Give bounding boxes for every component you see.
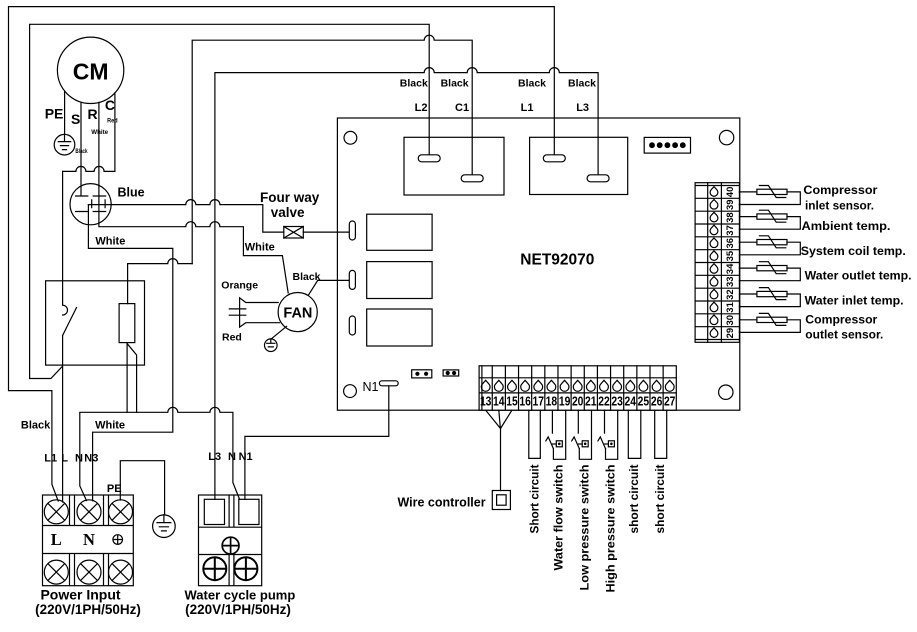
wire L1: power L terminal up left side, across top, down to board pad L1 bbox=[9, 7, 555, 501]
power input terminal L bottom bbox=[44, 560, 68, 584]
svg-text:32: 32 bbox=[725, 289, 736, 300]
terminal strip 13-27 bbox=[479, 366, 676, 410]
svg-text:L2: L2 bbox=[415, 102, 428, 114]
svg-text:Short circuit: Short circuit bbox=[527, 465, 541, 534]
svg-text:valve: valve bbox=[271, 205, 305, 220]
svg-text:N: N bbox=[228, 451, 236, 463]
relay slot 3 bbox=[349, 316, 355, 335]
water cycle pump terminal block bbox=[199, 495, 262, 586]
svg-text:Black: Black bbox=[518, 78, 546, 90]
svg-text:White: White bbox=[245, 242, 275, 254]
contactor pad box 1 (L2/C1) bbox=[404, 137, 504, 195]
svg-text:Low pressure switch: Low pressure switch bbox=[577, 465, 591, 591]
svg-text:Ambient temp.: Ambient temp. bbox=[802, 219, 891, 233]
svg-text:Red: Red bbox=[107, 117, 118, 124]
svg-text:inlet sensor.: inlet sensor. bbox=[805, 199, 874, 213]
svg-text:PE: PE bbox=[107, 483, 122, 495]
pad C1 bbox=[461, 175, 483, 182]
wire PE: power PE terminal up and right to earth electrode bbox=[120, 461, 164, 515]
svg-text:23: 23 bbox=[611, 394, 623, 409]
svg-text:38: 38 bbox=[725, 212, 736, 223]
svg-text:System coil temp.: System coil temp. bbox=[801, 244, 906, 258]
pump screw terminal right bbox=[234, 557, 257, 580]
wire N3: capacitor bottom down, right, down, left, down to power terminal N bbox=[88, 205, 172, 501]
board corner hole top-left bbox=[344, 131, 357, 144]
svg-text:Water outlet temp.: Water outlet temp. bbox=[805, 268, 912, 282]
wire: CM terminal S down to capacitor bbox=[80, 102, 82, 196]
svg-text:Red: Red bbox=[222, 332, 242, 344]
fan capacitor plates bbox=[229, 309, 246, 315]
wire: node v1 down-left link to neutral (hop over N3 vertical) bbox=[128, 259, 193, 304]
wire + thermistor RT3 system coil sensor bbox=[739, 236, 800, 255]
svg-text:Water flow switch: Water flow switch bbox=[552, 465, 566, 571]
power input terminal N bottom bbox=[77, 560, 101, 584]
svg-text:Power Input: Power Input bbox=[40, 587, 120, 603]
svg-text:Water inlet temp.: Water inlet temp. bbox=[805, 293, 904, 307]
ground (fan) bbox=[265, 339, 278, 352]
svg-text:19: 19 bbox=[559, 394, 571, 409]
wire: CM terminal PE down to ground bbox=[64, 91, 66, 134]
contactor switch blade bbox=[63, 308, 77, 336]
short circuit link 24-25 bbox=[628, 410, 641, 458]
svg-text:Black: Black bbox=[21, 419, 51, 431]
board corner hole top-right bbox=[719, 130, 733, 144]
relay K4 bbox=[367, 309, 432, 346]
svg-text:outlet sensor.: outlet sensor. bbox=[805, 328, 883, 342]
wire: CM terminal R down through capacitor, right to fan (White), hops v1,v2 bbox=[99, 102, 288, 293]
svg-text:C: C bbox=[105, 97, 115, 113]
fan capacitor plug (Orange/Red) bbox=[240, 298, 280, 327]
svg-text:L1: L1 bbox=[521, 102, 534, 114]
wire + thermistor RT2 ambient temp sensor bbox=[739, 210, 800, 229]
wire N1: board pad N1 down, left, down to pump terminal N1 bbox=[245, 386, 389, 500]
svg-text:N1: N1 bbox=[239, 451, 253, 463]
svg-text:L: L bbox=[51, 530, 62, 549]
pad N1 bbox=[379, 381, 398, 386]
pad L2 bbox=[418, 155, 440, 162]
wire + thermistor RT6 compressor outlet sensor bbox=[739, 313, 800, 332]
svg-text:L: L bbox=[61, 452, 68, 464]
wire: fan to earth bbox=[271, 326, 286, 339]
svg-text:27: 27 bbox=[664, 394, 676, 409]
wire L2: switch junction via diagonal, up second-left vertical, across, down to board pad L2 bbox=[30, 24, 430, 378]
2-pin connector J1 bbox=[412, 370, 432, 378]
board corner hole bottom-right bbox=[719, 385, 733, 399]
short circuit link 16-17 bbox=[529, 410, 541, 458]
ground (power input area) bbox=[153, 515, 176, 538]
svg-text:N1: N1 bbox=[363, 380, 379, 394]
wire L3: pump L3 terminal up long vertical, across top (hops over L2,C1,L1 wires), down to board pad L3 bbox=[215, 68, 598, 500]
svg-text:N: N bbox=[75, 452, 83, 464]
svg-text:Water cycle pump: Water cycle pump bbox=[185, 588, 296, 603]
compressor motor CM bbox=[57, 37, 123, 103]
svg-text:35: 35 bbox=[725, 250, 736, 261]
power input terminal L top bbox=[44, 500, 68, 524]
svg-text:High pressure switch: High pressure switch bbox=[604, 465, 618, 593]
contactor box K1 bbox=[46, 281, 145, 365]
water flow switch contact 18-19 style bbox=[546, 410, 566, 459]
svg-text:20: 20 bbox=[572, 394, 584, 409]
wire: CM terminal C left-then-down to contactor switch (hops over S and R wires) bbox=[63, 93, 115, 171]
wire: capacitor centre to four-way valve (hops v1,v2) bbox=[88, 200, 283, 233]
wire controller bbox=[492, 491, 510, 510]
relay K2 bbox=[367, 214, 432, 250]
svg-text:Compressor: Compressor bbox=[803, 183, 877, 197]
wire + thermistor RT4 water outlet sensor bbox=[739, 262, 800, 281]
svg-text:L1: L1 bbox=[44, 452, 57, 464]
wire + thermistor RT5 water inlet sensor bbox=[739, 288, 800, 307]
svg-text:CM: CM bbox=[73, 59, 109, 85]
relay K3 bbox=[367, 262, 432, 299]
wire: switch bottom down to power terminal L bbox=[62, 336, 64, 503]
svg-text:C1: C1 bbox=[455, 102, 469, 114]
svg-text:short circuit: short circuit bbox=[653, 465, 667, 534]
svg-text:29: 29 bbox=[725, 328, 736, 339]
svg-text:Black: Black bbox=[441, 78, 469, 90]
svg-text:(220V/1PH/50Hz): (220V/1PH/50Hz) bbox=[35, 602, 141, 617]
svg-text:31: 31 bbox=[725, 301, 736, 312]
high pressure switch contact 18-19 style bbox=[598, 410, 618, 459]
svg-text:21: 21 bbox=[585, 394, 597, 409]
svg-text:37: 37 bbox=[725, 225, 736, 236]
svg-text:Black: Black bbox=[75, 148, 87, 155]
svg-text:L3: L3 bbox=[208, 451, 221, 463]
sensor strip drop contacts bbox=[710, 187, 718, 338]
svg-text:R: R bbox=[88, 106, 98, 122]
wire: four-way valve to board slot 1 bbox=[303, 231, 349, 233]
pump screw terminal left bbox=[203, 557, 226, 580]
wire + thermistor RT1 compressor inlet sensor bbox=[739, 186, 800, 205]
svg-text:White: White bbox=[91, 129, 108, 136]
svg-text:15: 15 bbox=[506, 394, 518, 409]
power input terminal PE bottom bbox=[109, 560, 133, 584]
svg-text:40: 40 bbox=[725, 187, 736, 198]
run capacitor (Blue) bbox=[70, 184, 111, 225]
svg-text:Four way: Four way bbox=[260, 190, 320, 205]
board corner hole bottom-left (N1) bbox=[344, 385, 357, 398]
svg-text:14: 14 bbox=[493, 394, 505, 409]
svg-text:30: 30 bbox=[725, 315, 736, 326]
svg-text:NET92070: NET92070 bbox=[520, 251, 594, 268]
short circuit link 26-27 bbox=[655, 410, 667, 458]
svg-text:Black: Black bbox=[400, 78, 428, 90]
2-pin connector J2 bbox=[443, 370, 459, 376]
svg-text:16: 16 bbox=[519, 394, 531, 409]
pad L3 bbox=[587, 175, 609, 182]
power input terminal N top bbox=[77, 500, 101, 524]
svg-text:S: S bbox=[71, 111, 80, 127]
sensor terminal strip 29-40 bbox=[695, 183, 739, 343]
svg-text:Orange: Orange bbox=[221, 280, 258, 292]
wire White neutral bus: power N terminal to pump N terminal (hops N3, L3 verticals) bbox=[80, 407, 240, 500]
relay slot 2 bbox=[349, 270, 355, 289]
terminal drop contacts 13-27 bbox=[481, 380, 674, 391]
wire: contactor switch top feed bbox=[62, 171, 64, 305]
svg-text:L3: L3 bbox=[576, 102, 589, 114]
earth mark in power block bbox=[113, 535, 123, 545]
svg-text:N: N bbox=[83, 530, 95, 549]
pump earth mark bbox=[222, 537, 239, 554]
svg-text:White: White bbox=[95, 419, 125, 431]
svg-text:18: 18 bbox=[546, 394, 558, 409]
svg-text:33: 33 bbox=[725, 276, 736, 287]
power input terminal block bbox=[43, 495, 134, 586]
svg-text:34: 34 bbox=[725, 263, 736, 274]
svg-text:FAN: FAN bbox=[283, 306, 312, 322]
svg-text:short circuit: short circuit bbox=[627, 465, 641, 534]
overload resistor R1 bbox=[119, 304, 135, 343]
svg-text:13: 13 bbox=[480, 394, 492, 409]
svg-text:39: 39 bbox=[725, 199, 736, 210]
svg-text:17: 17 bbox=[533, 394, 545, 409]
wires from terminals 13,14,15 to wire controller bbox=[486, 410, 512, 490]
svg-text:Wire controller: Wire controller bbox=[397, 495, 485, 509]
svg-text:N3: N3 bbox=[84, 452, 98, 464]
wire C1: from node v1 up, across (hop over L2 wire), down to board pad C1 bbox=[192, 35, 472, 263]
contactor switch contact bbox=[63, 305, 68, 315]
svg-text:(220V/1PH/50Hz): (220V/1PH/50Hz) bbox=[185, 602, 291, 617]
svg-text:Compressor: Compressor bbox=[805, 312, 877, 326]
svg-text:25: 25 bbox=[638, 394, 650, 409]
svg-text:PE: PE bbox=[45, 106, 64, 122]
contactor pad box 2 (L1/L3) bbox=[530, 137, 628, 194]
control board NET92070 outline bbox=[337, 118, 739, 410]
svg-text:24: 24 bbox=[625, 394, 637, 409]
power input terminal PE top bbox=[109, 500, 133, 524]
wire: black fan wire to board slot 2 bbox=[308, 280, 349, 295]
svg-text:22: 22 bbox=[598, 394, 610, 409]
svg-text:White: White bbox=[95, 235, 125, 247]
pad L1 bbox=[543, 155, 565, 162]
four way valve coil bbox=[284, 227, 304, 239]
svg-text:Black: Black bbox=[568, 78, 596, 90]
svg-text:36: 36 bbox=[725, 238, 736, 249]
fan motor FAN bbox=[278, 293, 317, 332]
ground PE (compressor) bbox=[54, 134, 75, 155]
svg-text:26: 26 bbox=[651, 394, 663, 409]
low pressure switch contact 18-19 style bbox=[572, 410, 592, 459]
svg-text:Black: Black bbox=[293, 271, 321, 283]
5-pin connector bbox=[644, 137, 690, 153]
svg-text:Blue: Blue bbox=[118, 186, 145, 200]
relay slot 1 bbox=[349, 221, 355, 240]
wire: overload resistor bottom to neutral bus (two drops) bbox=[127, 343, 137, 413]
